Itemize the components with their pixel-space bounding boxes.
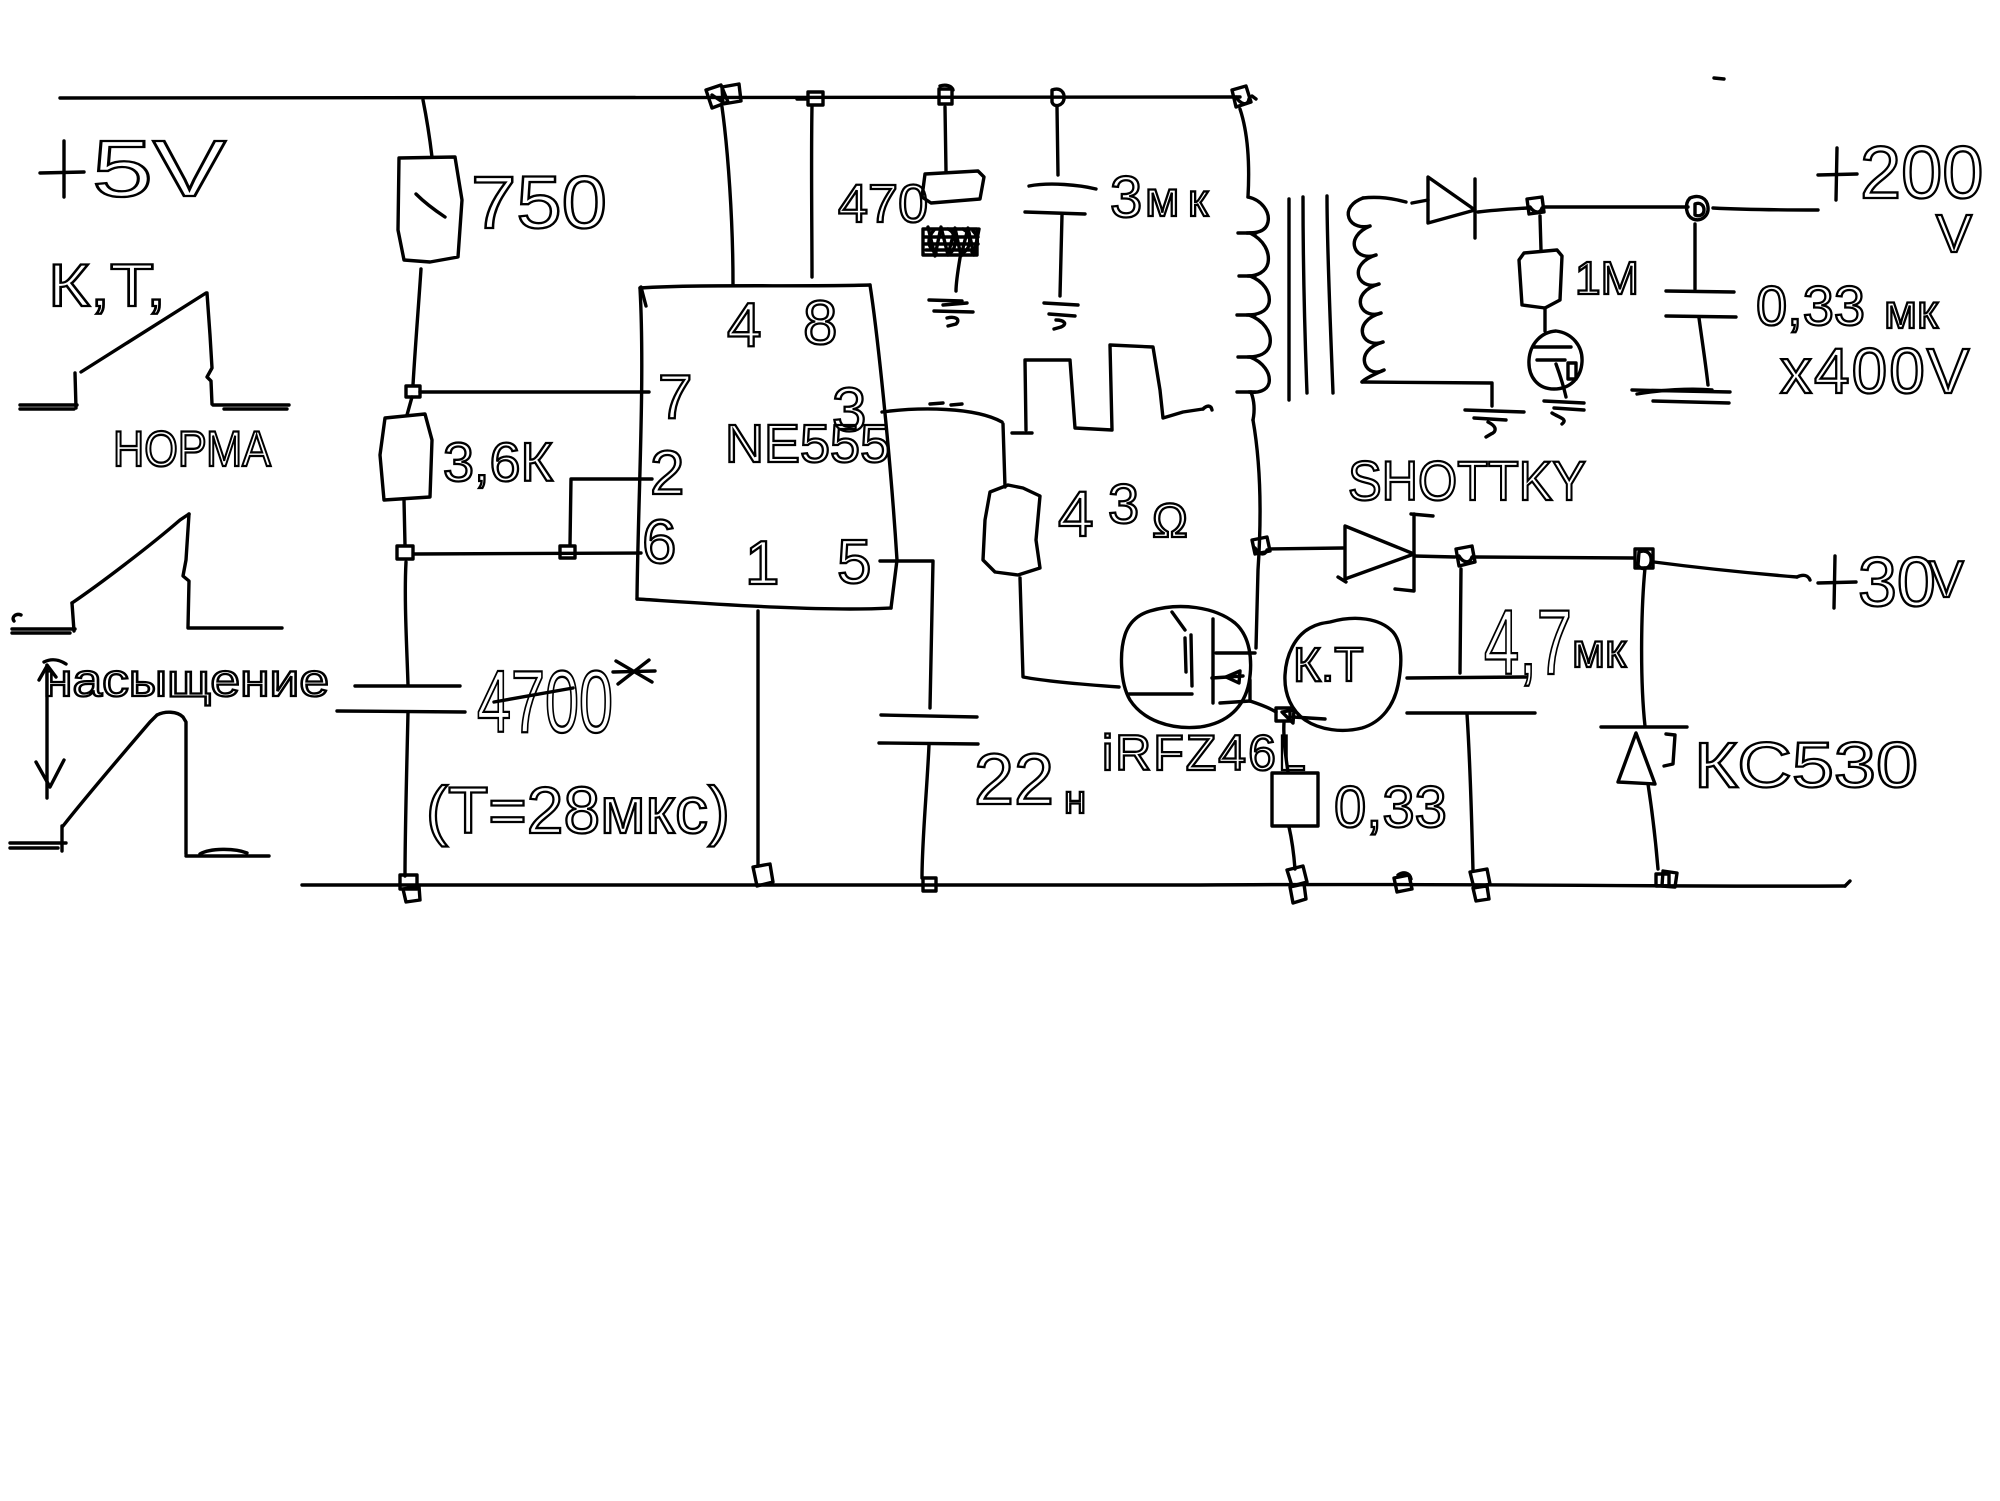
resistor R3.6K: [380, 414, 432, 500]
svg-text:6: 6: [642, 508, 676, 577]
svg-text:К,Т,: К,Т,: [48, 252, 166, 319]
arrow end: [1797, 575, 1810, 580]
label 4,7mk: [1484, 592, 1627, 694]
node junction C4.7 rail: [1470, 869, 1490, 901]
svg-text:к: к: [1188, 174, 1209, 226]
svg-text:30: 30: [1858, 543, 1936, 621]
wire pin4 to rail: [722, 107, 733, 284]
svg-text:4: 4: [727, 291, 761, 360]
wire pin5 to C22n: [880, 561, 933, 708]
capacitor C4.7mk: [1407, 677, 1535, 713]
label 0,33mk: [1756, 274, 1939, 339]
wire R750 to node: [413, 269, 421, 385]
wire to zener node: [1475, 557, 1634, 558]
svg-text:V: V: [1929, 551, 1964, 609]
node junction 470 rail: [939, 85, 953, 104]
dash mark: [1714, 78, 1724, 79]
svg-text:1М: 1М: [1575, 252, 1639, 304]
ground C0.33: [1632, 389, 1730, 403]
wire to +30V label: [1654, 562, 1797, 577]
svg-text:н: н: [1064, 778, 1086, 822]
node junction pin2 tap: [560, 546, 575, 558]
wire node2 to C4700: [405, 562, 408, 685]
scribble erased: [923, 227, 979, 256]
node junction C4700 rail: [400, 875, 420, 902]
label 43 Ohm: [1058, 472, 1188, 550]
label 4700*: [477, 652, 655, 751]
wire schottky to +30V: [1414, 556, 1455, 557]
wire C3mk to ground: [1060, 215, 1062, 296]
transformer T1 primary: [1237, 109, 1270, 420]
capacitor C22n: [879, 715, 978, 744]
waveform saturation sawtooth: [12, 514, 282, 633]
svg-text:0,33: 0,33: [1756, 274, 1865, 337]
capacitor C4700: [337, 686, 465, 712]
wire node to C0.33mk: [1693, 224, 1696, 289]
svg-text:КС530: КС530: [1694, 729, 1918, 801]
power label +5V: [40, 124, 227, 213]
label 3mk: [1110, 165, 1209, 230]
svg-text:x400V: x400V: [1780, 335, 1971, 407]
node junction R0.33 rail: [1287, 866, 1307, 903]
wire source to node: [1250, 701, 1276, 712]
svg-text:К.Т: К.Т: [1293, 639, 1364, 692]
arrow KT pointer: [1282, 710, 1325, 723]
svg-text:750: 750: [471, 161, 607, 244]
wire bottom ground rail: [302, 884, 1845, 886]
transistor Q1 IRFZ46 circle: [1121, 607, 1250, 728]
svg-text:200: 200: [1860, 131, 1983, 214]
wire pin1 to ground rail: [756, 611, 759, 866]
resistor R470: [922, 171, 984, 203]
svg-text:4,7: 4,7: [1484, 592, 1572, 694]
label 22n: [974, 740, 1086, 822]
wire scribble to ground: [956, 258, 960, 291]
node junction pin4 rail: [706, 84, 741, 108]
svg-text:3: 3: [832, 376, 866, 445]
diode D2 schottky: [1338, 514, 1433, 591]
wire C0.33 to ground: [1699, 318, 1708, 385]
capacitor C3mk: [1025, 184, 1096, 214]
svg-text:SHOTTKY: SHOTTKY: [1348, 449, 1586, 512]
wire R43 to gate: [1020, 578, 1119, 687]
wire C4700 to ground rail: [405, 712, 408, 876]
svg-text:0,33: 0,33: [1334, 775, 1447, 840]
waveform saturation pulse 2: [10, 712, 269, 856]
svg-text:НОРМА: НОРМА: [113, 421, 272, 477]
diode D1 rectifier: [1412, 177, 1475, 238]
svg-text:мк: мк: [1884, 286, 1939, 339]
wire C4.7 to rail: [1467, 714, 1473, 871]
wire pin8 to rail: [810, 106, 814, 277]
wire node to pin7: [420, 390, 649, 393]
wire dashes: [930, 403, 962, 405]
wire R3.6K to node2: [404, 500, 405, 545]
wire node to C4.7: [1460, 569, 1461, 673]
wire rail to C3mk: [1057, 107, 1058, 175]
ground trimmer: [1544, 401, 1584, 424]
transformer T1 core: [1289, 196, 1333, 400]
wire node to zener: [1642, 568, 1645, 726]
ground R470: [929, 300, 973, 326]
svg-text:8: 8: [803, 289, 837, 358]
ground C3mk: [1044, 303, 1078, 329]
svg-text:м: м: [1145, 171, 1179, 227]
svg-text:22: 22: [974, 740, 1054, 820]
transistor Q1 internals: [1129, 612, 1255, 703]
node junction C22n rail: [923, 878, 936, 891]
svg-text:V: V: [1936, 204, 1972, 264]
wire pin3 to R43: [882, 409, 1002, 422]
svg-text:5: 5: [837, 528, 871, 597]
ground secondary: [1465, 410, 1524, 437]
svg-text:1: 1: [745, 529, 779, 598]
blob KT test point: [1285, 618, 1401, 730]
resistor R1M: [1519, 250, 1562, 308]
wire pin3 down: [1003, 424, 1005, 487]
wire node to R3.6K: [407, 397, 412, 415]
wire drain to transformer: [1253, 420, 1260, 648]
node junction zener rail: [1656, 871, 1677, 887]
node junction 1M: [1527, 197, 1544, 214]
wire R0.33 to rail: [1289, 827, 1295, 869]
node junction transformer rail: [1232, 86, 1256, 107]
wire to +200 label: [1713, 208, 1818, 210]
wire top +5V rail: [60, 97, 1240, 98]
svg-text:470: 470: [838, 174, 928, 234]
wire node to +200: [1545, 205, 1688, 208]
node junction C0.33: [1686, 196, 1708, 219]
svg-text:7: 7: [658, 363, 692, 432]
transformer T1 secondary: [1348, 197, 1406, 382]
resistor R0.33: [1272, 773, 1318, 826]
wire rail to R750: [423, 100, 432, 157]
wire node2 to pin6: [414, 553, 641, 554]
svg-text:3,6К: 3,6К: [443, 431, 553, 493]
svg-text:3: 3: [1108, 472, 1139, 535]
svg-text:Ω: Ω: [1152, 495, 1188, 548]
node junction drain schottky: [1252, 537, 1270, 554]
node junction source: [1276, 708, 1290, 721]
svg-text:3: 3: [1110, 165, 1142, 230]
diode D3 zener KC530: [1601, 727, 1687, 784]
waveform NORMA sawtooth: [20, 293, 289, 409]
wire secondary to ground: [1362, 382, 1492, 406]
wire C22n to ground rail: [922, 745, 929, 878]
svg-text:(Т=28мкс): (Т=28мкс): [426, 773, 730, 847]
resistor R750: [398, 157, 462, 262]
node junction pin6 net: [397, 546, 413, 559]
node junction 3mk rail: [1052, 89, 1064, 105]
node junction pin1 rail: [753, 864, 773, 886]
power label +30V: [1818, 543, 1964, 621]
svg-text:5V: 5V: [92, 124, 227, 213]
wire node to R1M: [1540, 216, 1541, 250]
trimmer RP1: [1529, 331, 1582, 397]
capacitor C0.33mk: [1666, 291, 1736, 317]
svg-text:мк: мк: [1572, 625, 1627, 678]
node junction C4.7: [1456, 546, 1475, 566]
wire zener to rail: [1648, 784, 1658, 869]
svg-text:2: 2: [650, 439, 684, 508]
wire pin2 to tap: [570, 479, 652, 545]
svg-text:4: 4: [1058, 478, 1094, 550]
svg-text:насыщение: насыщение: [43, 654, 329, 706]
wire node to schottky: [1269, 548, 1343, 549]
IC U1 NE555 body: [637, 285, 897, 609]
node junction zener: [1635, 549, 1653, 569]
node junction R3.6K: [406, 386, 420, 397]
resistor R43: [983, 485, 1040, 575]
wire source to R0.33: [1284, 722, 1288, 772]
wire diode to 1M node: [1478, 208, 1527, 212]
node junction mid rail: [1394, 875, 1412, 892]
wire rail to R470: [945, 107, 946, 171]
node junction pin8 rail: [797, 92, 823, 105]
power label +200: [1818, 131, 1983, 264]
wire R1M to trimmer: [1543, 308, 1546, 331]
arrow amplitude: [36, 660, 66, 798]
waveform drain pulses: [1012, 345, 1212, 433]
